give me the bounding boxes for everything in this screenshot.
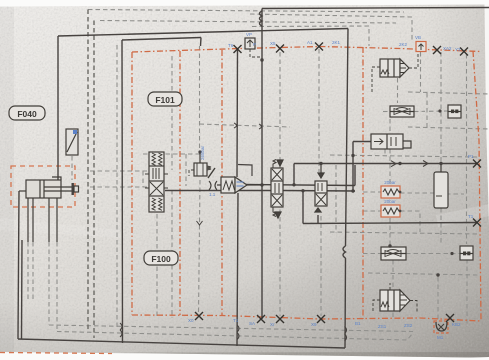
wire dashed top rail 2 xyxy=(250,14,412,42)
wire dashed stub D1 left xyxy=(363,191,381,193)
orifice resistor D1 20bar xyxy=(381,180,401,198)
cylinder legs xyxy=(27,198,29,242)
restrictor O1 xyxy=(209,181,217,190)
wire brace y330 x122 xyxy=(120,323,122,330)
wire main pressure vertical x262 xyxy=(261,9,263,320)
svg-text:M1: M1 xyxy=(437,335,444,340)
wire jump mark x237 on y126 xyxy=(234,123,237,128)
wire dashed D2 right corner xyxy=(400,211,420,232)
wire dashed vertical left x94 bold xyxy=(93,21,95,339)
gauge port M1 xyxy=(434,321,448,333)
wire dashed nested rect under cylinder v x57 xyxy=(56,242,58,332)
wire dashed nested rect under cylinder v x49 xyxy=(48,242,50,325)
svg-text:1.1: 1.1 xyxy=(209,192,216,197)
wire dashed sensor drop xyxy=(71,156,73,180)
node X P right end xyxy=(473,160,481,168)
wire dashed horizontal y274 right xyxy=(368,273,478,275)
wire dashed connector F2-B2 xyxy=(406,253,460,255)
svg-text:20bar: 20bar xyxy=(384,180,396,185)
svg-text:2K2: 2K2 xyxy=(399,42,408,47)
wire y165 arrowed feeder left stub xyxy=(354,165,356,186)
svg-text:A1: A1 xyxy=(307,40,313,45)
svg-text:X9: X9 xyxy=(311,322,317,327)
svg-text:T6: T6 xyxy=(228,43,234,48)
proportional valve V1 (vertical stack) xyxy=(145,152,168,212)
node dot xyxy=(319,162,322,165)
node X X5 xyxy=(276,45,284,53)
svg-text:Xr: Xr xyxy=(270,322,275,327)
wire dashed vertical x397 below R1 xyxy=(397,78,399,103)
pump/relief unit U1 with triangle xyxy=(217,177,262,193)
wire dashed bottom rail 1 xyxy=(49,325,413,332)
wire solid stub at x201 xyxy=(200,38,203,47)
node dot xyxy=(351,154,354,157)
svg-text:VP: VP xyxy=(246,32,252,37)
accumulator A1 xyxy=(434,164,448,208)
wire dashed vertical x390 lowest xyxy=(392,260,394,318)
wire solid rect B right vertical xyxy=(346,29,349,247)
spring+arrow top xyxy=(273,160,276,169)
wire dashed vertical x390 low xyxy=(389,218,391,246)
wire dashed cylinder legs x28 xyxy=(27,242,29,300)
wire orange vertical x132 xyxy=(131,52,133,315)
svg-text:X0: X0 xyxy=(188,318,194,323)
wire break symbol top xyxy=(260,11,263,26)
label F100 xyxy=(144,251,178,265)
wire dashed vertical x172 xyxy=(171,56,173,170)
wire dashed horizontal prop valve left y187 xyxy=(90,186,149,188)
check valve VB right top xyxy=(416,42,426,52)
wire dashed vertical x319 lower xyxy=(320,216,322,316)
wire dashed stub F2 left xyxy=(363,253,381,255)
wire dashed vertical x390 resistors xyxy=(389,119,391,185)
wire dashed pilot vertical x199.5 xyxy=(199,46,201,150)
wire orange bottom rail xyxy=(132,315,481,321)
node X X0 xyxy=(195,312,203,320)
wire orange vertical right x475 xyxy=(473,51,481,321)
wire dashed stub D2 left xyxy=(363,210,381,212)
wire dashed horizontal y93 right xyxy=(408,92,489,94)
wire line y163 upper right xyxy=(294,163,477,165)
svg-text:F101: F101 xyxy=(155,95,175,105)
wire solid rect B left vertical xyxy=(121,40,124,343)
wire solid left vertical x19 xyxy=(18,191,19,339)
wire arrow on dashed x199 xyxy=(197,221,203,225)
node X T right end xyxy=(473,219,481,227)
wire dashed horizontal y128 right xyxy=(408,127,489,129)
wire arrow on y163 line b xyxy=(423,161,428,167)
node dot xyxy=(351,189,354,192)
svg-text:KB2: KB2 xyxy=(452,322,461,327)
wire dashed horizontal prop valve left y172 xyxy=(90,170,149,172)
relief valve R2 lower right xyxy=(373,283,417,313)
arrow top xyxy=(318,173,324,178)
node dot xyxy=(388,244,391,247)
wire solid rect B top xyxy=(122,38,201,41)
node dot xyxy=(198,150,201,153)
svg-text:ZS1: ZS1 xyxy=(378,324,387,329)
orifice resistor D2 20bar xyxy=(381,199,401,217)
wire solid bottom line xyxy=(18,339,345,348)
flow control F1 right xyxy=(390,106,414,117)
wire dashed bottom rail 2 xyxy=(57,332,413,341)
valve V3 (vertical 2-section) xyxy=(271,160,283,219)
wire vertical x237 from top X down xyxy=(236,49,239,177)
check valve VP top xyxy=(245,38,264,62)
wire line y190 right xyxy=(282,190,355,193)
wire solid rect A left vertical to cylinder xyxy=(57,36,59,180)
wire orange bottom left segment xyxy=(0,353,112,354)
wire x353 vertical right block xyxy=(352,142,354,193)
spring in top section xyxy=(152,153,156,165)
valve V4 xyxy=(315,164,327,213)
arrow bottom xyxy=(315,208,321,212)
wrinkle highlight streak xyxy=(436,204,489,227)
svg-text:P1: P1 xyxy=(468,154,474,159)
small valve B1 right xyxy=(448,105,461,118)
wire jump mark x262 on y126 xyxy=(259,124,262,129)
wire dashed vertical x117 xyxy=(116,45,118,330)
wire main line y184 xyxy=(246,185,355,186)
label F040 xyxy=(9,106,45,120)
wire dashed top rail 4 xyxy=(252,26,369,46)
wire dashed vertical x467 low xyxy=(466,259,468,327)
relief valve R1 upper right xyxy=(372,53,418,92)
node dot xyxy=(301,189,304,192)
small valve B2 lower right xyxy=(460,246,473,260)
wire valve2 down to y222 xyxy=(317,215,319,224)
wire dashed vertical x441 low xyxy=(440,208,442,244)
wire dashed stub below V5 xyxy=(384,149,386,156)
wire dashed box left edge x143 xyxy=(142,171,144,187)
wire dashed vertical x427 xyxy=(426,93,428,128)
sensor S1 level switch xyxy=(66,129,78,155)
wire dashed horizontal y155 right xyxy=(330,155,477,157)
node X A1 xyxy=(315,43,323,51)
wire brace y330 x345 xyxy=(345,327,347,334)
wire dashed vertical left x88 bold xyxy=(87,10,89,332)
line break humps on x262 xyxy=(120,11,428,341)
wire dashed vertical x319 upper xyxy=(318,49,320,172)
wire dashed vertical x157 below prop valve xyxy=(156,214,158,318)
svg-text:ZS2: ZS2 xyxy=(404,323,413,328)
svg-text:B1: B1 xyxy=(355,321,361,326)
wire dashed horizontal y194 right xyxy=(400,192,436,194)
svg-text:F100: F100 xyxy=(151,254,171,264)
wire orange vertical x363 xyxy=(362,47,364,319)
wire V5 left port line xyxy=(353,141,371,143)
svg-text:T1: T1 xyxy=(468,214,474,219)
node X Y2 xyxy=(460,48,468,56)
wire solid left vertical x22 xyxy=(21,240,24,339)
wire solid rect B right vertical lower xyxy=(344,258,347,348)
2-position valve V5 xyxy=(371,134,411,149)
pressure reducing valve V2 xyxy=(189,151,215,179)
wire dashed top rail 1 xyxy=(88,10,404,13)
wire dashed vertical x421 below VB xyxy=(420,52,422,92)
node dot xyxy=(292,183,295,186)
right edge white sliver xyxy=(485,5,489,226)
svg-text:X5: X5 xyxy=(270,41,276,46)
svg-text:265bar: 265bar xyxy=(200,145,205,160)
node X SA xyxy=(257,315,265,323)
section bars xyxy=(153,168,159,179)
wire dashed box around reducing valve xyxy=(143,153,202,155)
node X Xr xyxy=(276,315,284,323)
spring bottom xyxy=(273,207,276,217)
node dot xyxy=(439,162,442,165)
label F101 xyxy=(148,92,182,106)
svg-text:XA2: XA2 xyxy=(443,46,452,51)
wire line y222 lower right xyxy=(303,223,477,224)
wire arrow on y163 line a xyxy=(391,161,396,167)
wire dashed vertical x172 lower xyxy=(171,190,173,318)
wire dashed horizontal y194 right b xyxy=(446,193,464,195)
svg-text:SA: SA xyxy=(249,321,255,326)
wire dashed vertical x336 xyxy=(335,165,337,233)
node X X9 xyxy=(317,315,325,323)
wire brace y337 x237 xyxy=(237,333,239,340)
wire dashed top rail 3 xyxy=(100,21,396,24)
wire dashed vertical x441 xyxy=(440,52,442,180)
node X T6 xyxy=(234,45,242,53)
svg-text:F040: F040 xyxy=(17,109,37,119)
wire line y190 xyxy=(165,190,271,192)
bottom edge shadow band xyxy=(120,352,489,358)
wire dashed pilot horizontal y126 xyxy=(200,124,291,127)
wire brace y330 x237 xyxy=(237,325,239,332)
left edge soft shadow xyxy=(0,7,14,353)
wire solid rect A top xyxy=(58,29,348,37)
orange dashed box around cylinder F040 xyxy=(11,166,75,207)
wire vertical x294 xyxy=(293,164,295,185)
wire pump suction vertical x238 xyxy=(237,193,238,346)
wire dashed box around reducing valve v xyxy=(185,154,187,186)
node dot xyxy=(260,183,263,186)
wire pilot L to pump xyxy=(238,165,252,177)
wire orange top rail xyxy=(132,47,481,53)
svg-text:2K1: 2K1 xyxy=(332,40,341,45)
svg-text:20bar: 20bar xyxy=(384,199,396,204)
svg-text:Y2: Y2 xyxy=(455,47,461,52)
wire brace y337 x345 xyxy=(345,334,347,341)
spring in bottom section xyxy=(152,198,156,210)
wire brace y337 x122 xyxy=(120,330,122,337)
node X XA2 xyxy=(433,46,441,54)
svg-text:P: P xyxy=(253,42,256,47)
wire dashed pilot vertical x199 lower xyxy=(199,180,201,314)
wire vertical x303 xyxy=(302,191,304,224)
svg-text:T1: T1 xyxy=(233,318,239,323)
wire dashed connector F1-B1 y111 xyxy=(383,111,390,113)
wire solid top line y8 xyxy=(262,8,489,9)
wire dashed horizontal y233 right xyxy=(330,232,480,234)
wire dashed cylinder legs x33 xyxy=(32,242,34,300)
flow control F2 lower right xyxy=(381,247,406,260)
svg-text:VB: VB xyxy=(415,35,421,40)
wire dashed vertical x438 to M1 xyxy=(437,277,439,320)
node dot xyxy=(398,162,401,165)
wire orange vertical x222 xyxy=(221,50,223,316)
wire break symbol x345 xyxy=(343,246,346,258)
node dot xyxy=(436,273,439,276)
node X KB2 xyxy=(446,314,454,322)
wire dashed vertical x280 xyxy=(279,52,281,316)
wire dashed vertical x467 xyxy=(466,54,468,244)
node dot xyxy=(260,58,263,61)
wire orange vertical x180 xyxy=(179,51,181,315)
cylinder C1 xyxy=(19,177,79,242)
blue labels xyxy=(188,32,474,340)
